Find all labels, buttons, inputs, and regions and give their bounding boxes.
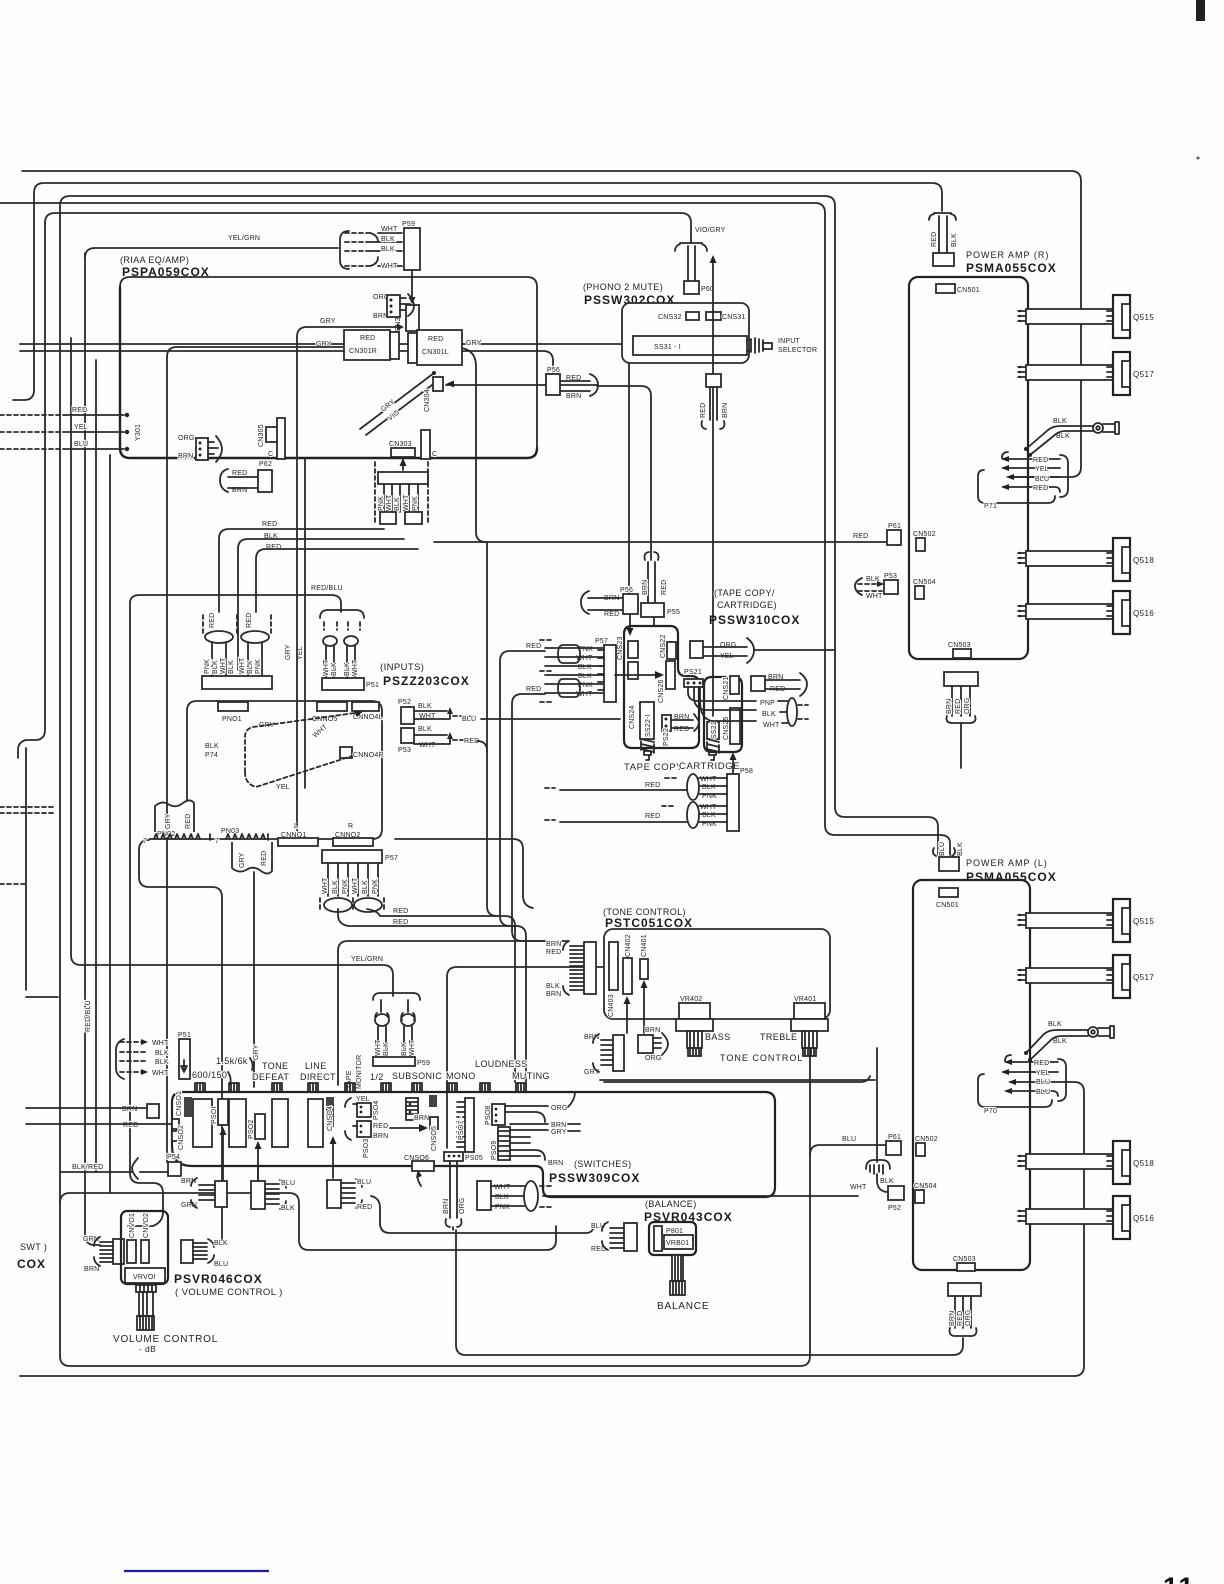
svg-text:WHT: WHT bbox=[352, 877, 359, 894]
svg-text:CARTRIDGE): CARTRIDGE) bbox=[717, 600, 777, 610]
svg-text:CN303: CN303 bbox=[389, 441, 412, 448]
svg-text:P52: P52 bbox=[398, 699, 411, 706]
svg-text:PSPA059COX: PSPA059COX bbox=[122, 265, 210, 279]
svg-text:CNS24: CNS24 bbox=[629, 705, 636, 729]
svg-text:PS05: PS05 bbox=[465, 1155, 483, 1162]
svg-text:PSOI: PSOI bbox=[211, 1106, 218, 1124]
svg-text:Q515: Q515 bbox=[1133, 313, 1154, 322]
board PSVR043 box bbox=[649, 1222, 696, 1255]
svg-text:BLK: BLK bbox=[1053, 418, 1067, 425]
svg-text:P56: P56 bbox=[620, 587, 633, 594]
svg-text:WHT: WHT bbox=[381, 226, 398, 233]
svg-text:P61: P61 bbox=[888, 523, 901, 530]
svg-text:PSSW310COX: PSSW310COX bbox=[709, 613, 800, 627]
svg-text:BLK: BLK bbox=[951, 233, 958, 247]
connector box on selector wire bbox=[706, 374, 721, 387]
connector P57 header bbox=[322, 850, 382, 863]
transistor Q515 (L) bbox=[1113, 899, 1130, 942]
switch SS21 bbox=[707, 722, 719, 739]
svg-text:P53: P53 bbox=[884, 573, 897, 580]
svg-text:BLK: BLK bbox=[362, 880, 369, 894]
bus to Q517 (R) bbox=[1026, 365, 1113, 380]
svg-text:PSVR046COX: PSVR046COX bbox=[174, 1272, 263, 1286]
board PSSW309COX outline bbox=[172, 1092, 775, 1197]
svg-text:7: 7 bbox=[143, 838, 147, 845]
svg-text:RED: RED bbox=[232, 470, 247, 477]
switch SS31-1 bbox=[633, 336, 747, 355]
svg-text:BLK: BLK bbox=[394, 497, 401, 511]
connector P55 with BRN/RED pair bbox=[645, 552, 659, 560]
svg-text:ORG: ORG bbox=[645, 1055, 662, 1062]
svg-text:BALANCE: BALANCE bbox=[657, 1301, 709, 1312]
svg-text:BLK: BLK bbox=[495, 1194, 509, 1201]
svg-text:PSO9: PSO9 bbox=[491, 1141, 498, 1160]
svg-text:CN304: CN304 bbox=[424, 389, 431, 412]
svg-text:CNS26: CNS26 bbox=[658, 679, 665, 703]
svg-text:Q518: Q518 bbox=[1133, 556, 1154, 565]
connector CNS05 / PS07 cluster bbox=[406, 1098, 418, 1120]
svg-text:ORG: ORG bbox=[459, 1197, 466, 1214]
svg-text:BLK: BLK bbox=[381, 236, 395, 243]
svg-text:INPUT: INPUT bbox=[778, 338, 801, 345]
svg-text:Q518: Q518 bbox=[1133, 1159, 1154, 1168]
svg-text:BRN: BRN bbox=[722, 403, 729, 418]
svg-text:BLK: BLK bbox=[155, 1059, 169, 1066]
svg-text:BLK: BLK bbox=[247, 660, 254, 674]
svg-text:WHT: WHT bbox=[375, 1039, 382, 1056]
svg-text:DIRECT: DIRECT bbox=[300, 1072, 336, 1082]
svg-text:CN301L: CN301L bbox=[422, 349, 449, 356]
svg-text:RED: RED bbox=[357, 1204, 372, 1211]
svg-text:CN401: CN401 bbox=[641, 934, 648, 957]
svg-text:WHT: WHT bbox=[700, 804, 717, 811]
jack cluster P51 bbox=[320, 610, 364, 618]
transistor Q518 (L) bbox=[1113, 1141, 1130, 1184]
connector P52 with WHT/BLK bbox=[866, 1160, 890, 1169]
svg-text:PNK: PNK bbox=[342, 879, 349, 894]
svg-text:ORG: ORG bbox=[965, 1309, 972, 1326]
connector CN302 bbox=[406, 305, 419, 331]
svg-text:P70: P70 bbox=[984, 1108, 997, 1115]
svg-text:WHT: WHT bbox=[850, 1184, 867, 1191]
board PSSW302COX outline bbox=[622, 303, 749, 363]
svg-text:COX: COX bbox=[17, 1257, 46, 1271]
svg-text:YEL/GRN: YEL/GRN bbox=[228, 235, 260, 242]
svg-text:GRY: GRY bbox=[239, 852, 246, 868]
svg-text:WHT: WHT bbox=[220, 657, 227, 674]
blue underline bottom left bbox=[124, 1570, 269, 1572]
svg-text:RED: RED bbox=[428, 336, 443, 343]
svg-text:PNP: PNP bbox=[760, 700, 775, 707]
svg-text:CN504: CN504 bbox=[914, 1183, 937, 1190]
svg-text:BLK: BLK bbox=[546, 983, 560, 990]
svg-text:(TAPE COPY/: (TAPE COPY/ bbox=[714, 588, 775, 598]
bus to Q516 (R) bbox=[1026, 604, 1113, 619]
svg-text:BRN: BRN bbox=[645, 1027, 660, 1034]
svg-text:BLK: BLK bbox=[205, 743, 219, 750]
wire vertical x877 to WHT/BLK P52 cluster bbox=[876, 1048, 878, 1162]
svg-text:WHT: WHT bbox=[152, 1070, 169, 1077]
svg-text:BRN: BRN bbox=[373, 313, 388, 320]
svg-text:BLK: BLK bbox=[381, 246, 395, 253]
svg-text:BLK: BLK bbox=[332, 880, 339, 894]
svg-text:PNK: PNK bbox=[204, 659, 211, 674]
svg-text:WHT: WHT bbox=[866, 593, 883, 600]
bus to Q515 (R) bbox=[1026, 309, 1113, 324]
svg-text:Q515: Q515 bbox=[1133, 917, 1154, 926]
arrow P56 down to CNS23 bbox=[629, 614, 631, 632]
wire bottom line y1355 from PS05 to amp L BRN/RED/ORG bbox=[456, 1230, 963, 1355]
wire bottom full line y1376 from P70 BLU bbox=[20, 1082, 1084, 1376]
svg-text:P52: P52 bbox=[888, 1205, 901, 1212]
svg-text:BLK: BLK bbox=[155, 1050, 169, 1057]
svg-text:PSZZ203COX: PSZZ203COX bbox=[383, 674, 470, 688]
svg-text:TAPE COPY: TAPE COPY bbox=[624, 762, 683, 773]
wire RED/BLU horizontal y595 bbox=[130, 595, 341, 612]
svg-text:WHT: WHT bbox=[312, 723, 330, 739]
svg-text:RED: RED bbox=[262, 521, 277, 528]
connector P60 bbox=[675, 244, 707, 251]
svg-text:P51: P51 bbox=[178, 1032, 191, 1039]
svg-text:RED: RED bbox=[246, 613, 253, 628]
svg-text:(BALANCE): (BALANCE) bbox=[645, 1199, 697, 1209]
switch SS22-1 bbox=[640, 702, 654, 739]
svg-text:VOLUME CONTROL: VOLUME CONTROL bbox=[113, 1334, 218, 1345]
board PSMA055COX (L) outline bbox=[913, 880, 1030, 1270]
svg-text:BRN: BRN bbox=[546, 941, 561, 948]
connector PS22 with BRN/RED bbox=[662, 715, 671, 731]
svg-text:Q516: Q516 bbox=[1133, 1214, 1154, 1223]
wire arrow up into CNS31 bbox=[712, 258, 714, 428]
svg-text:PNO1: PNO1 bbox=[222, 716, 242, 723]
svg-text:BRN: BRN bbox=[949, 1311, 956, 1326]
svg-text:GRY: GRY bbox=[253, 1044, 260, 1060]
connector CNS21 bbox=[730, 676, 739, 694]
svg-text:PNK: PNK bbox=[372, 879, 379, 894]
svg-text:PN02: PN02 bbox=[157, 831, 175, 838]
svg-text:CN501: CN501 bbox=[936, 902, 959, 909]
svg-text:7: 7 bbox=[215, 838, 219, 845]
svg-text:BLK: BLK bbox=[762, 711, 776, 718]
svg-text:P55: P55 bbox=[667, 609, 680, 616]
wire fan horizontals to x877 bbox=[600, 1079, 875, 1081]
svg-text:P59: P59 bbox=[402, 221, 415, 228]
wire volume board outline bbox=[60, 1193, 556, 1250]
transistor Q516 (L) bbox=[1113, 1196, 1130, 1239]
svg-text:BLU: BLU bbox=[1036, 1089, 1050, 1096]
svg-text:SS22-I: SS22-I bbox=[645, 714, 652, 737]
svg-text:GRY: GRY bbox=[285, 644, 292, 660]
connector P59 tape monitor jacks bbox=[373, 993, 420, 1000]
svg-text:RED: RED bbox=[955, 699, 962, 714]
svg-text:WHT: WHT bbox=[494, 1184, 511, 1191]
svg-text:RED: RED bbox=[185, 814, 192, 829]
connector CN501 (L) bbox=[939, 888, 958, 897]
svg-text:RED: RED bbox=[645, 813, 660, 820]
svg-text:BRN: BRN bbox=[443, 1199, 450, 1214]
svg-text:WHT: WHT bbox=[409, 1039, 416, 1056]
svg-text:BLK: BLK bbox=[281, 1205, 295, 1212]
connector BRN/RED/ORG below amp R bbox=[944, 672, 978, 686]
svg-text:- dB: - dB bbox=[139, 1344, 156, 1354]
svg-text:BRN: BRN bbox=[551, 1122, 566, 1129]
svg-text:CNVO1: CNVO1 bbox=[129, 1213, 136, 1238]
svg-text:RED: RED bbox=[645, 782, 660, 789]
svg-text:MUTING: MUTING bbox=[512, 1071, 550, 1081]
wire frame line B left tail exits page bbox=[13, 193, 34, 400]
svg-text:WHT: WHT bbox=[386, 494, 393, 511]
wire frame line A (outermost top, to P71 BLU) bbox=[22, 171, 1081, 477]
svg-text:YEL: YEL bbox=[74, 424, 88, 431]
svg-text:RED: RED bbox=[72, 407, 87, 414]
svg-text:SELECTOR: SELECTOR bbox=[778, 347, 817, 354]
svg-text:BLK: BLK bbox=[578, 664, 592, 671]
page corner black bar bbox=[1197, 157, 1200, 160]
svg-text:PNK: PNK bbox=[378, 496, 385, 511]
svg-text:RED: RED bbox=[123, 1122, 138, 1129]
svg-text:RED: RED bbox=[526, 686, 541, 693]
svg-text:BLU: BLU bbox=[462, 716, 476, 723]
connector CN303 mating bar with PNK/WHT/BLK/WHT/PNK pins bbox=[378, 472, 428, 484]
connector CN301L bbox=[408, 333, 417, 363]
svg-text:BLK: BLK bbox=[383, 1042, 390, 1056]
svg-text:RED: RED bbox=[373, 1123, 388, 1130]
board PSMA055COX (R) outline bbox=[909, 277, 1028, 659]
connector CN304 bbox=[433, 377, 443, 391]
svg-text:RED: RED bbox=[266, 544, 281, 551]
pot VRV01 bbox=[125, 1268, 165, 1283]
svg-text:YEL: YEL bbox=[356, 1096, 370, 1103]
svg-text:C: C bbox=[268, 451, 273, 458]
svg-text:CNS22: CNS22 bbox=[660, 634, 667, 658]
svg-text:BLU: BLU bbox=[74, 441, 88, 448]
wire RED y541 long to P61 (amp R) bbox=[462, 348, 486, 542]
svg-text:Y301: Y301 bbox=[135, 424, 142, 441]
svg-text:WHT: WHT bbox=[323, 659, 330, 676]
svg-text:BLK: BLK bbox=[957, 842, 964, 856]
board PSZZ203COX (INPUTS) outline bbox=[149, 701, 382, 839]
svg-text:GRY: GRY bbox=[165, 813, 172, 829]
svg-text:Q517: Q517 bbox=[1133, 370, 1154, 379]
connector BRN/RED/ORG below amp L bbox=[948, 1283, 981, 1296]
svg-text:CNS21: CNS21 bbox=[723, 676, 730, 700]
svg-text:PS22: PS22 bbox=[663, 728, 670, 746]
wire zigzag x139/y887/x228 to volume CNVO bbox=[139, 840, 222, 1240]
connector PN02 ribbon bbox=[155, 801, 194, 833]
transistor Q515 (R) bbox=[1113, 295, 1130, 338]
svg-text:LINE: LINE bbox=[305, 1061, 327, 1071]
svg-text:P61: P61 bbox=[888, 1134, 901, 1141]
connector CNS26 tall bbox=[666, 661, 675, 689]
svg-text:RED: RED bbox=[853, 533, 868, 540]
svg-text:WHT: WHT bbox=[763, 722, 780, 729]
board PSTC051COX outline bbox=[604, 929, 830, 1019]
svg-text:PNK: PNK bbox=[255, 659, 262, 674]
svg-text:VIO/GRY: VIO/GRY bbox=[695, 227, 726, 234]
connector ORG/YEL bbox=[690, 641, 703, 658]
board PSPA059COX (RIAA EQ/AMP) outline bbox=[120, 277, 537, 448]
svg-text:CN305: CN305 bbox=[258, 424, 265, 447]
svg-text:LOUDNESS: LOUDNESS bbox=[475, 1059, 528, 1069]
svg-text:BLK: BLK bbox=[418, 703, 432, 710]
svg-text:RED: RED bbox=[1034, 1060, 1049, 1067]
svg-text:P59: P59 bbox=[417, 1060, 430, 1067]
wire frame line C (y203 to x825 riser, amp L BLK feed) bbox=[0, 203, 950, 855]
svg-text:P56: P56 bbox=[547, 367, 560, 374]
bus to Q517 (L) bbox=[1026, 968, 1113, 983]
svg-text:P57: P57 bbox=[385, 855, 398, 862]
connector PS05 bbox=[444, 1152, 463, 1161]
svg-text:BLU: BLU bbox=[842, 1136, 856, 1143]
svg-text:BLK: BLK bbox=[1056, 433, 1070, 440]
svg-text:PSO4: PSO4 bbox=[373, 1101, 380, 1120]
svg-text:(PHONO 2 MUTE): (PHONO 2 MUTE) bbox=[583, 282, 663, 292]
connector P59 top with WHT/BLK/BLK/WHT rows bbox=[340, 231, 349, 269]
transistor Q516 (R) bbox=[1113, 591, 1130, 634]
connector CNS31 bbox=[706, 312, 721, 320]
svg-text:ORG: ORG bbox=[551, 1105, 568, 1112]
connector CN403 bbox=[609, 942, 618, 990]
svg-text:ORG: ORG bbox=[178, 435, 195, 442]
connector RED/BLK feed (amp R) bbox=[929, 214, 956, 220]
svg-text:BLK: BLK bbox=[578, 673, 592, 680]
svg-text:CN501: CN501 bbox=[957, 287, 980, 294]
svg-text:PN03: PN03 bbox=[221, 828, 239, 835]
svg-text:BRN: BRN bbox=[373, 1133, 388, 1140]
svg-text:VRB01: VRB01 bbox=[666, 1240, 689, 1247]
connector P57 tall with comb bbox=[604, 645, 616, 702]
svg-text:WHT: WHT bbox=[381, 263, 398, 270]
wire GRY vertical x254 (PN03 to switches) bbox=[253, 872, 255, 1087]
svg-text:RED: RED bbox=[209, 613, 216, 628]
connector BLK/BLU right of VRV01 bbox=[181, 1240, 193, 1263]
svg-text:MONITOR: MONITOR bbox=[356, 1055, 363, 1089]
svg-text:YEL: YEL bbox=[1036, 1070, 1050, 1077]
svg-text:RED: RED bbox=[526, 643, 541, 650]
svg-text:P54: P54 bbox=[167, 1154, 180, 1161]
svg-text:C: C bbox=[432, 451, 437, 458]
svg-text:SS31 - I: SS31 - I bbox=[654, 344, 681, 351]
container SS21 side bbox=[704, 677, 742, 752]
wire P55 stub into container bbox=[653, 617, 655, 626]
wire y1196 long horizontal (WHT/BLK/PNK to P52) bbox=[543, 1195, 858, 1197]
wires PS21 fan to PNP/BLK/WHT bbox=[688, 687, 756, 721]
coil SS21 bbox=[707, 739, 719, 753]
connector BLU/BLK below board bbox=[251, 1181, 265, 1209]
svg-text:BLU: BLU bbox=[357, 1179, 371, 1186]
svg-text:SS21: SS21 bbox=[711, 721, 718, 739]
wire GRY/YEL verticals center bbox=[304, 458, 306, 788]
svg-text:RED: RED bbox=[674, 726, 689, 733]
svg-text:BLU: BLU bbox=[939, 842, 946, 856]
bundle P71 RED/YEL/BLU/RED bbox=[1003, 459, 1060, 492]
svg-text:RED: RED bbox=[1033, 457, 1048, 464]
svg-text:TONE CONTROL: TONE CONTROL bbox=[720, 1053, 803, 1063]
svg-text:PS21: PS21 bbox=[684, 669, 702, 676]
svg-text:BLK/RED: BLK/RED bbox=[72, 1164, 103, 1171]
bus to Q515 (L) bbox=[1026, 913, 1113, 928]
svg-text:SWT ): SWT ) bbox=[20, 1242, 47, 1252]
svg-text:PNK: PNK bbox=[495, 1204, 510, 1211]
svg-text:P801: P801 bbox=[666, 1228, 683, 1235]
wire YEL/GRN top (y243 to P59 bracket) bbox=[85, 248, 338, 258]
svg-text:11: 11 bbox=[1163, 1572, 1196, 1584]
svg-text:CARTRIDGE: CARTRIDGE bbox=[679, 761, 740, 772]
svg-text:CNSO4: CNSO4 bbox=[327, 1106, 334, 1131]
board container (tape copy switches) stepped outline bbox=[624, 626, 699, 748]
svg-text:RED: RED bbox=[546, 949, 561, 956]
svg-text:1.5k/6k: 1.5k/6k bbox=[216, 1056, 248, 1066]
svg-text:P74: P74 bbox=[205, 752, 218, 759]
svg-text:WHT: WHT bbox=[352, 659, 359, 676]
svg-text:( VOLUME CONTROL ): ( VOLUME CONTROL ) bbox=[175, 1287, 283, 1298]
svg-text:RED: RED bbox=[261, 851, 268, 866]
connector BLU/RED below board bbox=[327, 1180, 341, 1208]
bus to Q516 (L) bbox=[1026, 1209, 1113, 1224]
svg-text:BASS: BASS bbox=[705, 1032, 731, 1042]
pot shaft balance bbox=[672, 1255, 683, 1281]
svg-text:(SWITCHES): (SWITCHES) bbox=[574, 1159, 632, 1169]
svg-text:YEL: YEL bbox=[1035, 466, 1049, 473]
svg-text:PSO7 -: PSO7 - bbox=[458, 1115, 465, 1140]
transistor Q518 (R) bbox=[1113, 538, 1130, 581]
svg-text:BRN: BRN bbox=[546, 991, 561, 998]
svg-text:CN502: CN502 bbox=[913, 531, 936, 538]
svg-text:WHT: WHT bbox=[403, 494, 410, 511]
svg-text:BLK: BLK bbox=[212, 660, 219, 674]
svg-text:BLU: BLU bbox=[281, 1180, 295, 1187]
connector BRN/RED right bbox=[751, 676, 765, 691]
wire left vertical x130 (RED/BLU) to GRN/BRN connector bbox=[128, 603, 163, 1226]
svg-text:GRY: GRY bbox=[466, 340, 482, 347]
wire y941 to tone BRN/RED comb bbox=[338, 941, 568, 951]
svg-text:P53: P53 bbox=[398, 747, 411, 754]
svg-text:P62: P62 bbox=[259, 461, 272, 468]
coil SS22 bbox=[641, 739, 654, 753]
wire big meander: left vert x56, top y196, right vert x835 to amp L BLU, bottom y1366, riser x814, YEL/GRN y961, vert x71 bbox=[71, 338, 393, 996]
svg-text:WHT: WHT bbox=[152, 1040, 169, 1047]
svg-text:BLK: BLK bbox=[1048, 1021, 1062, 1028]
svg-text:RED/BLU: RED/BLU bbox=[311, 585, 343, 592]
diagonal GRY/VIO wires to CN304 bbox=[360, 373, 440, 435]
svg-text:BLK: BLK bbox=[702, 784, 716, 791]
svg-text:CN503: CN503 bbox=[953, 1256, 976, 1263]
svg-text:BRN: BRN bbox=[84, 1266, 99, 1273]
svg-text:GRY: GRY bbox=[551, 1129, 567, 1136]
svg-text:RED/BLU: RED/BLU bbox=[85, 1000, 92, 1032]
svg-text:CNVO2: CNVO2 bbox=[143, 1213, 150, 1238]
svg-text:PSTC051COX: PSTC051COX bbox=[605, 916, 693, 930]
svg-text:P57: P57 bbox=[595, 638, 608, 645]
svg-text:PSMA055COX: PSMA055COX bbox=[966, 870, 1057, 884]
svg-text:BLK: BLK bbox=[418, 726, 432, 733]
svg-text:Q517: Q517 bbox=[1133, 973, 1154, 982]
svg-text:PSSW309COX: PSSW309COX bbox=[549, 1171, 640, 1185]
svg-text:BLK: BLK bbox=[214, 1240, 228, 1247]
svg-text:VR402: VR402 bbox=[680, 996, 702, 1003]
svg-text:CN502: CN502 bbox=[915, 1136, 938, 1143]
svg-text:WHT: WHT bbox=[239, 657, 246, 674]
svg-text:BRN: BRN bbox=[946, 699, 953, 714]
input selector shaft bbox=[747, 338, 763, 353]
svg-text:BLK: BLK bbox=[331, 662, 338, 676]
switch slots bbox=[193, 1099, 212, 1147]
arrow P59 to CN302 bbox=[411, 270, 413, 299]
svg-text:P71: P71 bbox=[984, 503, 997, 510]
svg-text:RED: RED bbox=[931, 232, 938, 247]
wire mid line F2 (y351 to P56 top drop) bbox=[20, 351, 553, 374]
svg-text:MONO: MONO bbox=[446, 1071, 476, 1081]
